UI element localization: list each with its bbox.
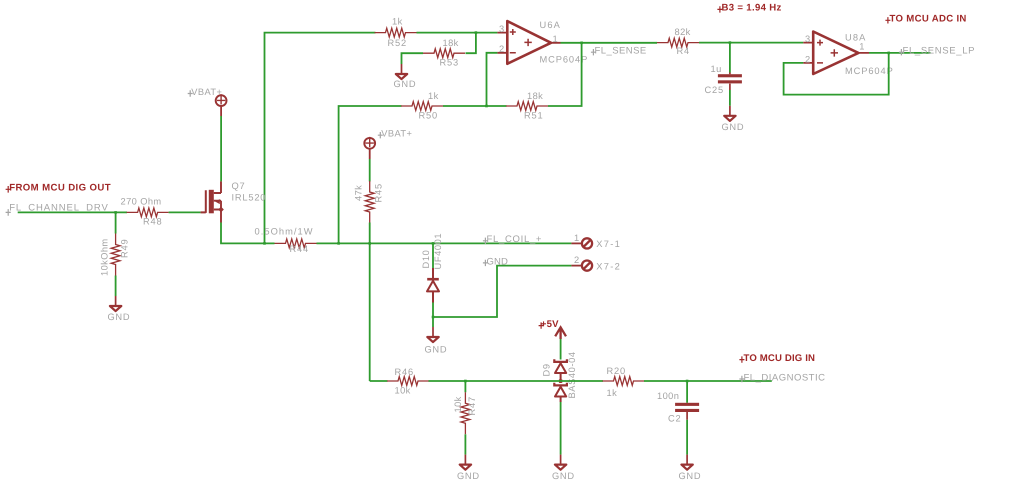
capacitor C25 [705, 64, 742, 95]
svg-text:R53: R53 [440, 58, 459, 68]
wire down to C2 [686, 381, 688, 403]
text B3 = 1.94 Hz [717, 3, 781, 14]
svg-text:2: 2 [574, 255, 579, 265]
wire D10 anode to gnd net [432, 303, 434, 318]
svg-text:VBAT+: VBAT+ [381, 129, 412, 139]
svg-text:+5V: +5V [541, 319, 559, 330]
power +5V [539, 319, 566, 339]
svg-text:3: 3 [499, 24, 504, 34]
text TO MCU ADC IN [885, 14, 966, 25]
node junction R53 tap [475, 31, 478, 34]
svg-text:X7-2: X7-2 [596, 261, 621, 271]
node label FL_CHANNEL_DRV [6, 203, 109, 216]
text FROM MCU DIG OUT [6, 182, 111, 193]
node label FL_SENSE [591, 46, 647, 57]
svg-text:R49: R49 [120, 239, 130, 258]
resistor R45 [354, 181, 384, 223]
pin 1 stub of X7-1 [571, 242, 581, 244]
svg-text:GND: GND [108, 312, 131, 322]
node junction sense-left [263, 242, 266, 245]
svg-text:1u: 1u [711, 64, 722, 74]
svg-text:1: 1 [574, 233, 579, 243]
svg-text:R51: R51 [524, 110, 543, 120]
svg-text:TO MCU ADC IN: TO MCU ADC IN [890, 14, 967, 25]
svg-text:IRL520: IRL520 [232, 193, 267, 203]
wire R51 up to FL_SENSE [548, 43, 582, 106]
resistor R44 [255, 226, 317, 254]
node junction R47 tap [464, 380, 467, 383]
svg-text:GND: GND [552, 471, 575, 481]
svg-text:U6A: U6A [540, 20, 561, 30]
diode D9 BAS40-04 upper [542, 351, 578, 398]
svg-text:3: 3 [805, 34, 810, 44]
wire R46 to R20 [429, 380, 604, 382]
wire U8A output FL_SENSE_LP [869, 52, 931, 54]
resistor R49 [100, 234, 130, 277]
wire FL_CHANNEL_DRV to R48 [18, 211, 127, 213]
svg-text:10kOhm: 10kOhm [100, 238, 110, 276]
resistor R46 [387, 367, 429, 396]
svg-text:R50: R50 [419, 110, 438, 120]
resistor R4 [657, 27, 699, 56]
wire down to R47 [464, 381, 466, 392]
svg-text:R45: R45 [374, 183, 384, 202]
wire gnd net to X7-2 [433, 266, 571, 317]
resistor R20 [603, 366, 645, 398]
svg-text:FL_SENSE: FL_SENSE [595, 46, 647, 57]
svg-text:Q7: Q7 [232, 181, 246, 191]
svg-text:0.5Ohm/1W: 0.5Ohm/1W [255, 226, 314, 236]
svg-text:GND: GND [722, 122, 745, 132]
resistor R48 [121, 197, 169, 227]
node junction sense-right [337, 242, 340, 245]
svg-text:FL_SENSE_LP: FL_SENSE_LP [903, 46, 976, 57]
node label FL_DIAGNOSTIC [739, 372, 825, 383]
svg-text:R44: R44 [290, 244, 309, 254]
svg-text:2: 2 [499, 44, 504, 54]
svg-text:B3 = 1.94 Hz: B3 = 1.94 Hz [722, 3, 782, 14]
ground under D9 [552, 455, 575, 482]
svg-text:1: 1 [859, 42, 864, 52]
wire U6A pin2 to R50/R51 node [487, 53, 498, 106]
node junction R45 line crossing [368, 242, 371, 245]
svg-text:R52: R52 [388, 38, 407, 48]
wire D10 cathode lead [432, 243, 434, 268]
svg-text:1k: 1k [607, 388, 618, 398]
wire down to R49 [115, 212, 117, 233]
svg-text:BAS40-04: BAS40-04 [567, 351, 577, 398]
svg-text:FL_COIL_+: FL_COIL_+ [487, 234, 543, 245]
svg-text:C25: C25 [705, 85, 724, 95]
wire Q7 source down to shunt row [221, 223, 275, 244]
svg-text:10k: 10k [395, 385, 411, 395]
svg-text:FL_DIAGNOSTIC: FL_DIAGNOSTIC [744, 372, 826, 383]
node junction C25 tap [729, 41, 732, 44]
svg-text:R46: R46 [395, 367, 414, 377]
resistor R53 [423, 38, 465, 68]
svg-text:R48: R48 [143, 216, 162, 226]
svg-text:1: 1 [553, 34, 558, 44]
svg-text:270 Ohm: 270 Ohm [121, 197, 162, 207]
svg-text:R4: R4 [677, 46, 690, 56]
text TO MCU DIG IN [739, 353, 815, 364]
op-amp U6A [497, 20, 588, 65]
wire R52 to U6A pin3 [417, 32, 498, 34]
svg-text:GND: GND [679, 471, 702, 481]
power VBAT+ above R45 [364, 129, 412, 160]
connector pin X7-2 [574, 255, 621, 271]
wire D9 to ground [560, 402, 562, 455]
node junction C2 tap [686, 380, 689, 383]
pin 2 stub of X7-2 [571, 265, 581, 267]
wire R44 to coil terminal X7-1 [317, 242, 572, 244]
wire R50 to R51 [443, 105, 507, 107]
wire C25 to ground [729, 90, 731, 106]
svg-text:C2: C2 [668, 413, 681, 423]
wire R4 to U8A pin3 [699, 42, 803, 44]
svg-text:U8A: U8A [845, 33, 866, 43]
wire R45 down through sense row to R46 corner [369, 223, 371, 382]
wire VBAT to R45 [369, 159, 371, 182]
svg-text:R20: R20 [607, 366, 626, 376]
wire R53 left to gnd corner [402, 53, 424, 64]
ground under R49 [108, 296, 131, 322]
node junction feedback tap [485, 105, 488, 108]
svg-text:18k: 18k [527, 91, 543, 101]
svg-text:1k: 1k [428, 91, 439, 101]
svg-text:100n: 100n [657, 391, 679, 401]
transistor Q2 MOSFET Q7 [201, 181, 267, 223]
ground under C2 [679, 455, 702, 482]
node label FL_SENSE_LP [899, 46, 975, 57]
svg-text:VBAT+: VBAT+ [191, 87, 222, 97]
svg-text:D10: D10 [421, 250, 431, 269]
wire R48 to Q7 gate [169, 211, 201, 213]
svg-text:47k: 47k [354, 185, 364, 201]
svg-text:GND: GND [457, 471, 480, 481]
resistor R47 [453, 392, 477, 434]
power VBAT+ at Q7 drain [188, 87, 227, 116]
wire gnd stub below D10 [432, 317, 434, 327]
wire R47 to ground [464, 434, 466, 454]
diode D10 UF4001 [421, 233, 443, 303]
diode D9 BAS40-04 lower [554, 381, 567, 402]
ground under R53 [394, 64, 417, 89]
resistor R52 [375, 17, 417, 49]
ground under D10 [425, 327, 448, 355]
wire VBAT to Q7 drain [220, 116, 222, 181]
wire R49 to ground [115, 276, 117, 297]
wire +5V to D9 [560, 339, 562, 360]
svg-text:D9: D9 [542, 363, 552, 376]
node label FL_COIL_+ [483, 234, 542, 245]
svg-text:TO MCU DIG IN: TO MCU DIG IN [744, 353, 816, 364]
resistor R50 [401, 91, 443, 120]
wire R46 row [370, 380, 388, 382]
wire R20 to FL_DIAGNOSTIC [644, 380, 772, 382]
node junction D10 tap [432, 242, 435, 245]
node junction on output wire [580, 42, 583, 45]
node junction feedback on output [887, 52, 890, 55]
svg-text:1k: 1k [392, 17, 403, 27]
node junction D9 tap [559, 379, 562, 382]
svg-text:GND: GND [487, 256, 508, 267]
node junction gnd net [432, 316, 435, 319]
wire C2 to ground [686, 420, 688, 455]
svg-text:X7-1: X7-1 [596, 239, 621, 249]
wire R50 row from sense tap [339, 106, 402, 243]
wire U6A output FL_SENSE [561, 42, 658, 44]
svg-text:R47: R47 [467, 396, 477, 415]
svg-text:82k: 82k [675, 27, 691, 37]
svg-text:MCP604P: MCP604P [845, 66, 894, 76]
op-amp U8A [803, 32, 893, 77]
wire U8A feedback loop [784, 53, 889, 95]
svg-text:UF4001: UF4001 [433, 233, 443, 270]
wire down to C25 [729, 43, 731, 73]
svg-text:GND: GND [425, 345, 448, 355]
wire down to R53 [466, 33, 476, 54]
node junction R49 tap [114, 211, 117, 214]
svg-text:2: 2 [805, 54, 810, 64]
ground under R47 [457, 455, 480, 482]
svg-text:GND: GND [394, 79, 417, 89]
wire from sense node up to R52 [265, 33, 376, 244]
capacitor C2 [657, 391, 699, 423]
connector pin X7-1 [574, 233, 621, 249]
node label GND net [483, 256, 508, 267]
ground under C25 [722, 106, 745, 132]
svg-text:10k: 10k [453, 396, 463, 412]
svg-text:18k: 18k [443, 38, 459, 48]
resistor R51 [506, 91, 548, 120]
svg-text:FROM MCU DIG OUT: FROM MCU DIG OUT [9, 182, 111, 193]
